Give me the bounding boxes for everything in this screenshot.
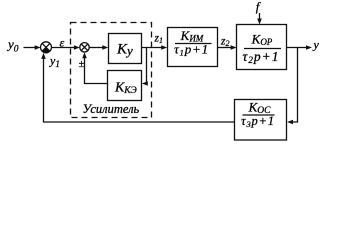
svg-text:Усилитель: Усилитель xyxy=(83,102,140,116)
summing junction S1 xyxy=(41,42,52,53)
label Usilitel xyxy=(83,102,140,116)
wire Kke output back to S2 xyxy=(85,58,108,84)
summing junction S2 xyxy=(80,43,89,52)
svg-text:±: ± xyxy=(79,59,85,70)
node y1 xyxy=(49,54,60,69)
wire y0 to summer S1 xyxy=(24,47,37,49)
wire Kor to output y xyxy=(287,47,308,49)
amplifier dashed boundary xyxy=(71,23,152,118)
wire branch down to Kke (inner feedback) xyxy=(146,48,148,84)
node y xyxy=(313,38,320,52)
wire S2 to block Ky xyxy=(89,47,103,49)
block Kim xyxy=(168,28,218,67)
label epsilon xyxy=(60,36,65,50)
block Ky xyxy=(109,34,142,64)
wire Kim to Kor xyxy=(218,47,232,49)
block Kor xyxy=(237,25,287,70)
wire Ky to block Kim xyxy=(142,47,163,49)
block Kos xyxy=(235,100,287,141)
label plus-minus xyxy=(79,59,85,70)
node z2 xyxy=(220,36,229,48)
block Kke xyxy=(108,71,142,101)
wire Kos output back to S1 xyxy=(44,58,235,122)
svg-text:y: y xyxy=(313,38,320,52)
svg-text:Ку: Ку xyxy=(116,42,133,59)
svg-text:τ3p+1: τ3p+1 xyxy=(241,114,275,129)
wire S1 to summer S2 xyxy=(52,47,76,49)
svg-text:τ2p+1: τ2p+1 xyxy=(243,49,280,65)
node z1 xyxy=(154,33,163,45)
node y0 xyxy=(6,37,19,55)
wire branch down to Kos xyxy=(292,48,298,123)
node f and wire into Kor xyxy=(256,0,262,14)
